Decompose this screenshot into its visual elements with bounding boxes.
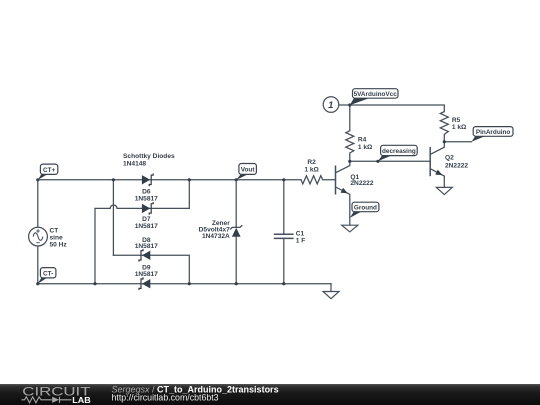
svg-text:1N5817: 1N5817 — [135, 243, 158, 250]
diode D7 (schottky, right) — [135, 202, 158, 230]
node CT+ — [36, 178, 39, 181]
wire Q2 emitter to ground — [443, 176, 445, 187]
wire top rail CT+ to Q1 base — [38, 179, 336, 181]
wire D7 right riser to top rail — [188, 180, 190, 209]
flag CT- — [38, 268, 56, 284]
node 1 circle — [323, 97, 339, 113]
zener diode D5 — [199, 220, 243, 240]
resistor R2 — [301, 176, 323, 184]
wire R4 top stub — [349, 105, 351, 131]
wire bottom rail CT- to ground — [38, 283, 331, 285]
svg-text:1N5817: 1N5817 — [135, 195, 158, 202]
node C1 top — [282, 178, 285, 181]
diode D6 (schottky, right) — [135, 173, 158, 202]
svg-text:R2: R2 — [307, 159, 316, 166]
diode D8 (schottky, left) — [135, 237, 158, 262]
wire PinArduino stub — [444, 141, 471, 143]
node x95 bottom — [93, 282, 96, 285]
capacitor C1 — [274, 231, 306, 245]
wire Q1 emitter to ground — [349, 194, 351, 225]
wire C1 branch vertical — [283, 180, 285, 284]
ground symbol bottom rail — [323, 292, 339, 299]
svg-text:Ground: Ground — [354, 205, 377, 212]
node C1 bottom — [282, 282, 285, 285]
flag 5VArduinoVcc — [350, 89, 398, 105]
svg-text:2N2222: 2N2222 — [350, 180, 373, 187]
node zener bottom — [235, 282, 238, 285]
svg-text:1N5817: 1N5817 — [135, 271, 158, 278]
node CT- — [36, 282, 39, 285]
node decreasing — [376, 160, 379, 163]
svg-text:1N4148: 1N4148 — [123, 161, 146, 168]
transistor Q1 — [336, 161, 374, 195]
svg-text:5VArduinoVcc: 5VArduinoVcc — [354, 91, 398, 98]
resistor R4 — [346, 131, 354, 153]
svg-text:1N4732A: 1N4732A — [202, 233, 230, 240]
svg-text:50 Hz: 50 Hz — [50, 242, 68, 249]
svg-text:1 kΩ: 1 kΩ — [304, 166, 319, 173]
svg-text:1: 1 — [328, 100, 333, 111]
svg-text:2N2222: 2N2222 — [445, 162, 468, 169]
svg-text:CT: CT — [50, 228, 59, 235]
svg-text:http://circuitlab.com/cbt6bt3: http://circuitlab.com/cbt6bt3 — [112, 393, 219, 403]
svg-text:sine: sine — [50, 235, 64, 242]
logo mini schematic — [22, 397, 52, 403]
svg-text:LAB: LAB — [72, 395, 91, 405]
svg-text:decreasing: decreasing — [382, 148, 416, 155]
flag Ground — [350, 202, 379, 218]
wire CT source vertical top — [37, 180, 39, 227]
flag Vout — [236, 164, 256, 180]
diode D9 (schottky, left) — [135, 264, 158, 290]
wire Vcc rail node1 to R5 — [338, 105, 444, 112]
wire D8 row — [113, 255, 189, 283]
svg-text:PinArduino: PinArduino — [476, 129, 511, 136]
ground symbol under Q2 — [436, 187, 452, 194]
wire Q1 collector node to Q2 base — [350, 160, 430, 162]
svg-text:CT+: CT+ — [43, 167, 56, 174]
voltage source CT sine — [29, 227, 68, 248]
svg-text:1N5817: 1N5817 — [135, 223, 158, 230]
svg-text:Vout: Vout — [241, 167, 256, 174]
node R5 bottom — [443, 140, 446, 143]
svg-text:R4: R4 — [358, 136, 367, 143]
svg-text:1 F: 1 F — [296, 238, 306, 245]
flag PinArduino — [471, 127, 513, 142]
wire bottom rail ground drop — [330, 284, 332, 292]
label Schottky Diodes annotation — [123, 153, 175, 168]
flag decreasing — [378, 145, 417, 161]
svg-text:1 kΩ: 1 kΩ — [452, 124, 467, 131]
ground symbol under Q1 — [342, 225, 358, 232]
svg-text:Schottky Diodes: Schottky Diodes — [123, 153, 175, 160]
svg-text:Q2: Q2 — [445, 155, 454, 162]
wire D7 row with hop over x113 — [95, 205, 189, 284]
transistor Q2 — [430, 142, 468, 178]
node Vout — [235, 178, 238, 181]
wire R4 bottom stub — [349, 153, 351, 161]
flag CT+ — [38, 164, 58, 180]
svg-text:1 kΩ: 1 kΩ — [358, 144, 373, 151]
wire R5 bottom stub — [443, 134, 445, 141]
node x113 top — [112, 178, 115, 181]
node x189 bottom — [188, 282, 191, 285]
wire zener branch vertical — [235, 180, 237, 284]
resistor R5 — [440, 112, 448, 135]
node x189 top — [188, 178, 191, 181]
wire vertical x113 D6 left to D8 wire — [112, 180, 114, 256]
node Q1 collector — [348, 160, 351, 163]
node Vcc — [348, 103, 351, 106]
svg-text:CT-: CT- — [43, 271, 53, 278]
wire CT source vertical bottom — [37, 246, 39, 284]
